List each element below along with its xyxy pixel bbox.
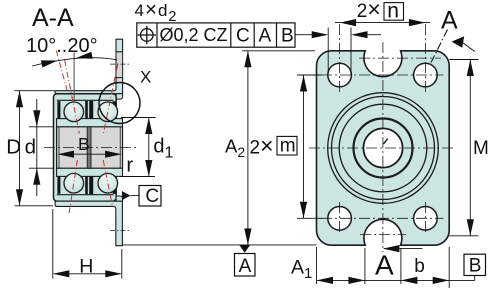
svg-text:A: A	[375, 250, 394, 281]
svg-text:2×: 2×	[250, 133, 274, 159]
red line bottom-right ball	[103, 160, 112, 206]
svg-text:m: m	[280, 136, 296, 157]
dimension D	[15, 91, 56, 206]
svg-text:B: B	[78, 134, 90, 154]
svg-text:n: n	[387, 0, 399, 23]
red line bottom-left ball	[69, 160, 77, 213]
svg-text:A-A: A-A	[32, 4, 74, 32]
datum C	[122, 191, 130, 200]
svg-text:M: M	[473, 138, 489, 159]
bolt hole top-right	[414, 63, 438, 87]
bolt hole bottom-right	[414, 207, 438, 231]
red contact-angle line 20deg	[56, 51, 67, 91]
ball top-right	[98, 102, 118, 122]
bolt hole top-left	[328, 63, 352, 87]
collar to ring junction	[116, 94, 123, 99]
bore (gray)	[57, 127, 123, 168]
feature control frame	[137, 23, 295, 47]
dimension 2xm	[297, 75, 322, 218]
svg-text:4×d2: 4×d2	[135, 0, 178, 25]
dimension M	[449, 60, 478, 236]
svg-text:Ø0,2 CZ: Ø0,2 CZ	[160, 25, 228, 45]
dimension d1	[121, 118, 156, 177]
housing plate bottom tab and collar	[55, 201, 122, 246]
inner ring band	[57, 119, 123, 177]
svg-text:C: C	[145, 186, 159, 207]
detail circle X	[99, 83, 140, 124]
bottom edge projection line	[122, 244, 316, 246]
cage/seal parts bottom row	[57, 177, 115, 195]
svg-text:A1: A1	[291, 257, 312, 283]
svg-text:b: b	[414, 256, 425, 277]
inner ring face double lines	[58, 127, 60, 168]
bolt axis tick top	[110, 63, 129, 65]
red line top-right ball	[103, 65, 117, 134]
position symbol	[138, 26, 156, 44]
inner housing circle	[339, 104, 427, 192]
inner ring joint band	[87, 127, 91, 168]
datum A (bottom left of flange)	[239, 245, 250, 253]
spherical seat circle	[332, 97, 435, 200]
svg-text:H: H	[79, 256, 93, 278]
section trace dash-dot	[431, 30, 448, 63]
cage/seal parts top row	[57, 101, 115, 119]
svg-text:D: D	[6, 135, 21, 158]
svg-text:B: B	[281, 26, 294, 47]
ball top-left	[64, 102, 84, 122]
dimension H	[53, 209, 122, 279]
dimension b arrows	[401, 277, 418, 284]
ball bottom-right	[98, 173, 118, 193]
vertical reference line for angle	[73, 53, 75, 101]
svg-text:A2: A2	[225, 136, 245, 161]
svg-text:A: A	[239, 256, 252, 277]
dimension A1 arrows	[317, 277, 334, 284]
svg-text:r: r	[126, 154, 133, 177]
svg-text:d1: d1	[153, 136, 173, 162]
svg-text:B: B	[469, 255, 482, 276]
raceway shoulder lines	[57, 100, 114, 194]
bore circle	[363, 128, 402, 167]
d2 hole dimension leader	[295, 28, 381, 74]
svg-text:A: A	[259, 26, 272, 47]
flange plate outline	[317, 51, 450, 245]
housing outer circle	[328, 93, 439, 204]
ball bottom-left	[64, 173, 84, 193]
datum B box	[464, 254, 486, 275]
svg-text:10°..20°: 10°..20°	[26, 35, 98, 57]
dimension d	[29, 99, 54, 196]
dimension 2xn	[335, 22, 430, 24]
outer ring block	[54, 94, 117, 202]
housing plate top tab and collar	[55, 39, 123, 99]
svg-text:2×: 2×	[357, 0, 381, 22]
red contact-angle line 10deg	[65, 60, 80, 134]
bolt axis tick bottom	[110, 230, 129, 232]
bearing seat circle (thick)	[354, 119, 413, 178]
svg-text:C: C	[236, 26, 250, 47]
angle dimension arc	[32, 58, 117, 66]
bore slash mark	[383, 139, 387, 144]
dimension A2	[242, 51, 315, 245]
collar to ring junction bottom	[116, 196, 123, 201]
bolt hole bottom-left	[328, 207, 352, 231]
bottom dimension extension lines	[317, 247, 475, 288]
dimension B	[60, 153, 119, 155]
svg-text:A: A	[441, 7, 458, 35]
centerlines	[309, 24, 456, 252]
section arrow with bent leader	[452, 36, 465, 48]
svg-text:d: d	[25, 135, 36, 158]
bolt hole d2 in tab (section)	[117, 52, 123, 78]
bearing axis centerline	[44, 147, 139, 149]
dimension A (bottom, from centerline)	[384, 248, 423, 250]
svg-text:X: X	[140, 67, 151, 86]
